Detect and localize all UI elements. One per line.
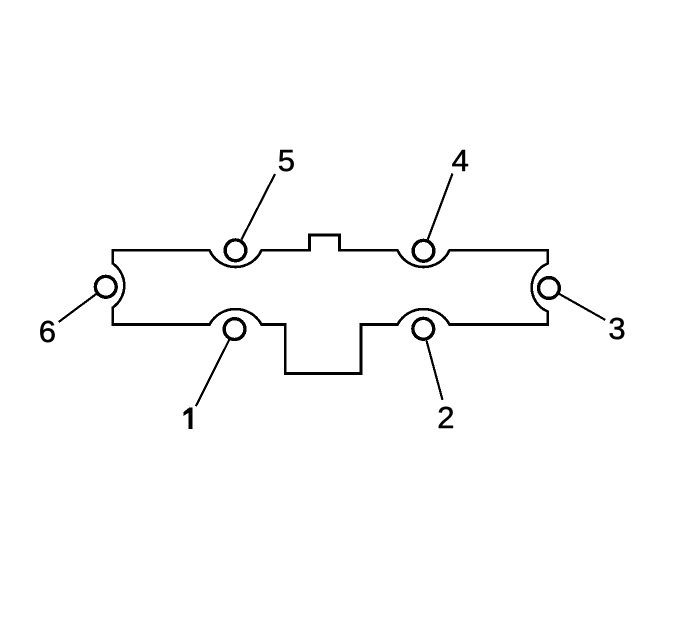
svg-text:6: 6 [39, 314, 56, 349]
bolt hole 2 [413, 318, 434, 339]
camshaft cover outline [113, 235, 548, 374]
leader line 6 [59, 294, 97, 322]
bolt hole 6 [95, 276, 116, 297]
svg-text:3: 3 [608, 311, 625, 346]
leader line 4 [428, 174, 453, 240]
svg-text:5: 5 [278, 143, 295, 178]
leader line 1 [196, 340, 229, 406]
bolt hole 5 [225, 240, 246, 261]
svg-text:2: 2 [437, 400, 454, 435]
leader line 2 [427, 341, 443, 400]
label 1 [184, 407, 193, 428]
bolt hole 1 [224, 319, 245, 340]
leader line 3 [559, 294, 605, 320]
bolt hole 4 [413, 240, 434, 261]
bolt hole 3 [539, 278, 560, 299]
leader line 5 [242, 174, 276, 240]
svg-text:4: 4 [452, 143, 469, 178]
